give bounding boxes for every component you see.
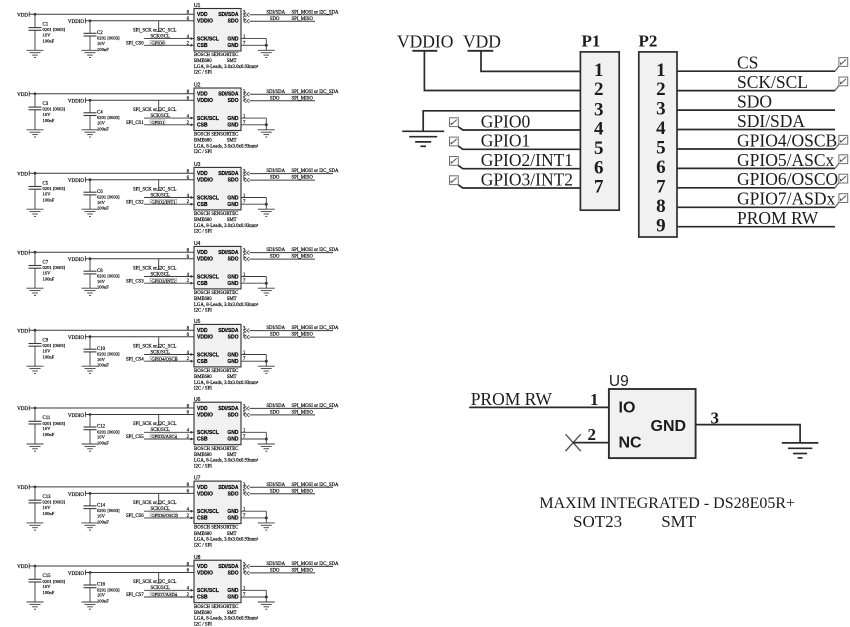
wire SDO net — [250, 258, 316, 260]
capacitor C9 — [29, 330, 42, 366]
svg-text:U6: U6 — [194, 397, 201, 403]
node VDD/C3 junction — [34, 92, 37, 95]
svg-text:LGA, 8-Leads, 3.0x3.0x0.93mm³: LGA, 8-Leads, 3.0x3.0x0.93mm³ — [194, 302, 259, 308]
value label C13 — [43, 495, 66, 516]
wire VDD rail — [29, 251, 194, 253]
capacitor C13 — [29, 487, 42, 523]
net label SDO SPI_MISO — [270, 333, 313, 338]
node GND junction — [265, 203, 268, 206]
wire GND pin 1 — [241, 117, 266, 119]
wire P2 pin 4 net SDI/SDA — [677, 129, 835, 131]
svg-text:16V: 16V — [97, 41, 106, 46]
svg-text:0201 [0603]: 0201 [0603] — [97, 352, 120, 357]
wire SDI/SDA net — [250, 486, 334, 488]
wire VDDIO rail — [85, 99, 194, 101]
ground (C1) — [27, 50, 44, 57]
IC U9 DS28E05R+ — [609, 373, 696, 458]
net label SDO SPI_MISO — [270, 255, 313, 260]
wire P1 pin 3 to ground — [423, 111, 580, 132]
svg-text:I2C / SPI: I2C / SPI — [194, 464, 212, 469]
svg-text:BME680: BME680 — [194, 139, 212, 144]
pin 5 bidirectional arrows — [244, 99, 250, 103]
svg-text:GPIO2/INT1: GPIO2/INT1 — [481, 150, 573, 170]
pin 3 bidirectional arrows — [244, 172, 250, 176]
svg-text:SPI_MISO: SPI_MISO — [292, 333, 314, 338]
ground (U9 pin 3) — [782, 443, 819, 458]
pin 4 marker — [190, 196, 192, 198]
pin 2 marker — [190, 438, 192, 440]
svg-text:SPI_MISO: SPI_MISO — [292, 411, 314, 416]
wire SDI/SDA net — [250, 252, 334, 254]
wire GND down — [265, 590, 267, 602]
svg-text:SDI/SDA: SDI/SDA — [218, 250, 239, 256]
svg-text:SPI_SCK or I2C_SCL: SPI_SCK or I2C_SCL — [133, 266, 177, 271]
svg-text:VDD: VDD — [197, 485, 208, 491]
net stub on VDDIO rail — [157, 100, 161, 111]
svg-text:2: 2 — [656, 79, 666, 100]
svg-text:P1: P1 — [582, 31, 601, 50]
node VDDIO/C10 junction — [89, 335, 92, 338]
svg-text:VDD: VDD — [197, 328, 208, 334]
port flag GPIO4/OSCB — [835, 135, 848, 149]
svg-text:GPIO2/INT1: GPIO2/INT1 — [151, 199, 176, 204]
wire SDO net — [250, 20, 316, 22]
wire SDO net — [250, 336, 316, 338]
net label SDO SPI_MISO — [270, 569, 313, 574]
wire SDI/SDA net — [250, 407, 334, 409]
wire GND pin 7 — [241, 282, 266, 284]
part info U7 — [194, 526, 259, 549]
net label SDO SPI_MISO — [270, 176, 313, 181]
wire SCK/SCL to pin 4 — [144, 38, 194, 40]
svg-text:SCK/SCL: SCK/SCL — [197, 430, 219, 436]
net stub on VDDIO rail — [157, 415, 161, 426]
svg-text:SPI_CS6: SPI_CS6 — [126, 514, 144, 519]
svg-text:SDI/SDA: SDI/SDA — [266, 483, 285, 488]
net label SDI/SDA SPI_MOSI or I2C_SDA — [266, 562, 339, 567]
svg-text:0201 [0603]: 0201 [0603] — [43, 579, 66, 584]
wire CSB to pin 2 — [144, 438, 194, 440]
svg-text:SPI_CS5: SPI_CS5 — [126, 435, 144, 440]
svg-text:16V: 16V — [43, 348, 52, 353]
ground (C8) — [82, 288, 99, 295]
svg-text:LGA, 8-Leads, 3.0x3.0x0.93mm³: LGA, 8-Leads, 3.0x3.0x0.93mm³ — [194, 143, 259, 149]
svg-text:VDD: VDD — [17, 172, 28, 177]
svg-text:SPI_SCK or I2C_SCL: SPI_SCK or I2C_SCL — [133, 344, 177, 349]
svg-text:SDI/SDA: SDI/SDA — [266, 90, 285, 95]
svg-text:SMT: SMT — [661, 512, 697, 531]
value label C9 — [43, 338, 66, 359]
svg-text:SPI_SCK or I2C_SCL: SPI_SCK or I2C_SCL — [133, 108, 177, 113]
svg-text:BME680: BME680 — [194, 453, 212, 458]
svg-text:VDDIO: VDDIO — [197, 98, 213, 104]
svg-text:SPI_MISO: SPI_MISO — [292, 176, 314, 181]
svg-text:VDDIO: VDDIO — [68, 20, 84, 25]
IC U5 BME680 — [194, 319, 241, 367]
wire SDI/SDA net — [250, 565, 334, 567]
svg-text:16V: 16V — [43, 112, 52, 117]
svg-text:16V: 16V — [43, 584, 52, 589]
pin 3 bidirectional arrows — [244, 564, 250, 568]
svg-text:16V: 16V — [97, 514, 106, 519]
pin 2 marker — [190, 44, 192, 46]
svg-text:SOT23: SOT23 — [573, 512, 622, 531]
capacitor C1 — [29, 14, 42, 50]
svg-text:VDDIO: VDDIO — [68, 179, 84, 184]
svg-text:VDDIO: VDDIO — [197, 491, 213, 497]
svg-text:GND: GND — [227, 274, 239, 280]
value label C16 — [97, 583, 120, 604]
wire SCK/SCL to pin 4 — [144, 431, 194, 433]
svg-text:VDDIO: VDDIO — [197, 335, 213, 341]
svg-text:SDO: SDO — [270, 333, 280, 338]
ground (C5) — [27, 209, 44, 216]
wire VDDIO rail — [85, 572, 194, 574]
wire SDI/SDA net — [250, 14, 334, 16]
value label C3 — [43, 102, 66, 123]
svg-text:U9: U9 — [609, 373, 629, 390]
svg-text:0201 [0603]: 0201 [0603] — [97, 36, 120, 41]
svg-text:VDDIO: VDDIO — [68, 493, 84, 498]
ground (C14) — [82, 523, 99, 530]
svg-text:BOSCH SENSORTEC: BOSCH SENSORTEC — [194, 53, 238, 58]
svg-text:SPI_MISO: SPI_MISO — [292, 255, 314, 260]
svg-text:CSB: CSB — [197, 43, 208, 49]
net stub on VDDIO rail — [157, 493, 161, 504]
wire CSB to pin 2 — [144, 360, 194, 362]
capacitor C4 — [84, 100, 97, 130]
svg-text:GPIO7/ASDx: GPIO7/ASDx — [737, 189, 835, 209]
wire SDO net — [250, 100, 316, 102]
ground (C6) — [82, 209, 99, 216]
svg-text:VDDIO: VDDIO — [197, 570, 213, 576]
svg-text:CSB: CSB — [197, 123, 208, 129]
svg-text:BOSCH SENSORTEC: BOSCH SENSORTEC — [194, 291, 238, 296]
svg-text:SDO: SDO — [270, 255, 280, 260]
svg-text:SCK/SCL: SCK/SCL — [197, 195, 219, 201]
node VDD/C1 junction — [34, 13, 37, 16]
node VDDIO/C16 junction — [89, 571, 92, 574]
ground (P1 pin 3) — [402, 131, 444, 146]
pin 5 bidirectional arrows — [244, 19, 250, 23]
power port VDDIO (U8 block) — [68, 570, 86, 577]
svg-text:SDO: SDO — [228, 19, 239, 25]
svg-text:P2: P2 — [639, 31, 658, 50]
wire GND pin 7 — [241, 360, 266, 362]
svg-text:100nF: 100nF — [43, 432, 55, 437]
capacitor C5 — [29, 173, 42, 209]
svg-text:VDDIO: VDDIO — [197, 412, 213, 418]
svg-text:BME680: BME680 — [194, 611, 212, 616]
wire GND down — [265, 355, 267, 367]
IC U6 BME680 — [194, 397, 241, 445]
svg-text:GPIO4/OSCB: GPIO4/OSCB — [737, 130, 837, 150]
pin 3 bidirectional arrows — [244, 13, 250, 17]
svg-text:SPI_MISO: SPI_MISO — [292, 17, 314, 22]
wire GPIO2/INT1 to P1 pin 6 — [458, 166, 580, 169]
svg-text:GND: GND — [227, 195, 239, 201]
svg-text:GND: GND — [227, 588, 239, 594]
svg-text:SDI/SDA: SDI/SDA — [266, 10, 285, 15]
svg-text:VDDIO: VDDIO — [197, 178, 213, 184]
svg-text:0201 [0603]: 0201 [0603] — [43, 107, 66, 112]
svg-text:SDI/SDA: SDI/SDA — [266, 169, 285, 174]
wire P2 pin 1 net CS — [677, 70, 835, 72]
svg-text:GPIO1: GPIO1 — [151, 120, 165, 125]
svg-text:16V: 16V — [43, 191, 52, 196]
net label GPIO3/INT2 — [150, 278, 177, 283]
svg-text:GPIO0: GPIO0 — [151, 40, 165, 45]
wire P2 pin 6 net GPIO5/ASCx — [677, 167, 835, 169]
node VDD/C9 junction — [34, 329, 37, 332]
node VDD/C7 junction — [34, 251, 37, 254]
svg-text:SCK/SCL: SCK/SCL — [197, 116, 219, 122]
wire SDO net — [250, 572, 316, 574]
svg-text:SCK/SCL: SCK/SCL — [197, 509, 219, 515]
capacitor C16 — [84, 573, 97, 603]
wire CSB to pin 2 — [144, 596, 194, 598]
svg-text:VDD: VDD — [17, 251, 28, 256]
svg-text:SCK/SCL: SCK/SCL — [197, 588, 219, 594]
svg-text:GND: GND — [227, 359, 239, 365]
wire GND pin 7 — [241, 124, 266, 126]
part info U2 — [194, 133, 259, 156]
svg-text:MAXIM INTEGRATED - DS28E05R+: MAXIM INTEGRATED - DS28E05R+ — [539, 495, 795, 512]
wire GND pin 1 — [241, 431, 266, 433]
svg-text:100nF: 100nF — [43, 276, 55, 281]
svg-text:100nF: 100nF — [97, 363, 109, 368]
wire P2 pin 8 net GPIO7/ASDx — [677, 206, 835, 208]
power port VDD (U1 block) — [17, 12, 29, 19]
svg-text:SPI_SCK or I2C_SCL: SPI_SCK or I2C_SCL — [133, 580, 177, 585]
power port VDD (U4 block) — [17, 250, 29, 257]
wire GND pin 1 — [241, 38, 266, 40]
net label GPIO2/INT1 — [150, 199, 177, 204]
svg-text:SDO: SDO — [228, 257, 239, 263]
svg-text:0201 [0603]: 0201 [0603] — [43, 500, 66, 505]
pin 5 bidirectional arrows — [244, 492, 250, 496]
wire GND pin 1 — [241, 276, 266, 278]
svg-text:16V: 16V — [97, 357, 106, 362]
wire GND pin 7 — [241, 517, 266, 519]
wire SCK/SCL to pin 4 — [144, 117, 194, 119]
svg-text:4: 4 — [656, 118, 666, 139]
svg-text:SMT: SMT — [227, 453, 237, 458]
part info U9 — [539, 495, 795, 531]
node VDDIO/C8 junction — [89, 257, 92, 260]
wire P2 pin 7 net GPIO6/OSCO — [677, 187, 835, 189]
wire GND pin 7 — [241, 203, 266, 205]
port flag GPIO1 — [450, 137, 459, 146]
svg-text:4: 4 — [594, 119, 604, 140]
wire GPIO3/INT2 to P1 pin 7 — [458, 185, 580, 188]
wire SDO net — [250, 414, 316, 416]
wire U9 pin 3 GND to ground — [696, 425, 801, 443]
node VDD/C15 junction — [34, 565, 37, 568]
svg-text:SDI/SDA: SDI/SDA — [218, 92, 239, 98]
net label SDI/SDA SPI_MOSI or I2C_SDA — [266, 248, 339, 253]
net label SDO SPI_MISO — [270, 96, 313, 101]
svg-text:U7: U7 — [194, 476, 201, 482]
svg-text:SDI/SDA: SDI/SDA — [266, 326, 285, 331]
svg-text:0201 [0603]: 0201 [0603] — [43, 186, 66, 191]
value label C15 — [43, 574, 66, 595]
svg-text:SPI_CS0: SPI_CS0 — [126, 41, 144, 46]
svg-text:0201 [0603]: 0201 [0603] — [97, 274, 120, 279]
svg-text:GND: GND — [651, 418, 687, 435]
port flag CS — [835, 58, 848, 72]
ground (U4) — [258, 288, 275, 295]
wire CSB to pin 2 — [144, 124, 194, 126]
part info U1 — [194, 53, 259, 76]
svg-text:VDDIO: VDDIO — [68, 414, 84, 419]
net label SDI/SDA SPI_MOSI or I2C_SDA — [266, 169, 339, 174]
svg-text:100nF: 100nF — [97, 519, 109, 524]
part info U5 — [194, 369, 259, 392]
pin 2 marker — [190, 360, 192, 362]
value label C8 — [97, 269, 120, 290]
pin 2 marker — [190, 282, 192, 284]
port flag GPIO7/ASDx — [835, 194, 848, 208]
svg-text:I2C / SPI: I2C / SPI — [194, 150, 212, 155]
ground (U5) — [258, 366, 275, 373]
IC U4 BME680 — [194, 241, 241, 289]
node VDDIO/C2 junction — [89, 19, 92, 22]
svg-text:SDI/SDA: SDI/SDA — [737, 111, 805, 131]
port flag GPIO5/ASCx — [835, 155, 848, 169]
svg-text:GND: GND — [227, 509, 239, 515]
wire GND pin 7 — [241, 44, 266, 46]
ground (C4) — [82, 130, 99, 137]
power port VDDIO (U3 block) — [68, 177, 86, 184]
svg-text:0201 [0603]: 0201 [0603] — [43, 343, 66, 348]
svg-text:16V: 16V — [97, 120, 106, 125]
svg-text:BME680: BME680 — [194, 59, 212, 64]
svg-text:VDDIO: VDDIO — [68, 258, 84, 263]
svg-text:16V: 16V — [43, 505, 52, 510]
svg-text:SPI_MOSI or I2C_SDA: SPI_MOSI or I2C_SDA — [292, 326, 339, 331]
net label SDI/SDA SPI_MOSI or I2C_SDA — [266, 483, 339, 488]
svg-text:16V: 16V — [97, 200, 106, 205]
node VDD/C5 junction — [34, 172, 37, 175]
power port VDD (U3 block) — [17, 171, 29, 178]
value label C12 — [97, 425, 120, 446]
svg-text:SMT: SMT — [227, 375, 237, 380]
wire VDD rail — [29, 407, 194, 409]
svg-text:5: 5 — [656, 138, 666, 159]
wire SDO net — [250, 493, 316, 495]
power port VDD (U7 block) — [17, 484, 29, 491]
svg-text:SDO: SDO — [270, 489, 280, 494]
node VDD/C11 junction — [34, 407, 37, 410]
connector P2 — [639, 31, 678, 237]
value label C1 — [43, 22, 66, 43]
part info U4 — [194, 291, 259, 314]
wire GND down — [265, 432, 267, 444]
svg-text:SPI_SCK or I2C_SCL: SPI_SCK or I2C_SCL — [133, 422, 177, 427]
svg-text:SDI/SDA: SDI/SDA — [218, 328, 239, 334]
wire CSB to pin 2 — [144, 517, 194, 519]
svg-text:GND: GND — [227, 43, 239, 49]
wire U9 pin 2 — [573, 442, 609, 444]
svg-text:0201 [0603]: 0201 [0603] — [97, 115, 120, 120]
svg-text:6: 6 — [656, 157, 666, 178]
svg-text:SDI/SDA: SDI/SDA — [218, 406, 239, 412]
svg-text:SDO: SDO — [228, 178, 239, 184]
wire CSB to pin 2 — [144, 44, 194, 46]
wire VDDIO rail — [85, 414, 194, 416]
wire SCK/SCL to pin 4 — [144, 197, 194, 199]
power port VDD (U5 block) — [17, 328, 29, 335]
wire VDDIO rail — [85, 20, 194, 22]
svg-text:100nF: 100nF — [43, 38, 55, 43]
svg-text:NC: NC — [619, 435, 643, 452]
net label GPIO4/OSCB — [150, 356, 178, 361]
svg-text:SCK/SCL: SCK/SCL — [197, 352, 219, 358]
svg-text:SPI_CS1: SPI_CS1 — [126, 121, 144, 126]
svg-text:I2C / SPI: I2C / SPI — [194, 622, 212, 627]
wire VDD rail — [29, 486, 194, 488]
wire CSB to pin 2 — [144, 203, 194, 205]
svg-text:2: 2 — [594, 79, 604, 100]
wire SCK/SCL to pin 4 — [144, 589, 194, 591]
svg-text:SPI_SCK or I2C_SCL: SPI_SCK or I2C_SCL — [133, 29, 177, 34]
ground (U3) — [258, 209, 275, 216]
capacitor C11 — [29, 408, 42, 444]
wire GND pin 1 — [241, 354, 266, 356]
svg-text:100nF: 100nF — [43, 590, 55, 595]
svg-text:BOSCH SENSORTEC: BOSCH SENSORTEC — [194, 526, 238, 531]
svg-text:GND: GND — [227, 595, 239, 601]
wire P2 pin 5 net GPIO4/OSCB — [677, 148, 835, 150]
svg-text:SDO: SDO — [228, 98, 239, 104]
svg-text:100nF: 100nF — [43, 354, 55, 359]
svg-text:0201 [0603]: 0201 [0603] — [97, 429, 120, 434]
svg-text:U2: U2 — [194, 83, 201, 89]
wire SCK/SCL to pin 4 — [144, 276, 194, 278]
svg-text:I2C / SPI: I2C / SPI — [194, 387, 212, 392]
power port VDDIO — [397, 32, 453, 52]
power port VDD (U8 block) — [17, 563, 29, 570]
svg-text:100nF: 100nF — [97, 599, 109, 604]
wire GPIO0 to P1 pin 4 — [458, 127, 580, 130]
ground (U8) — [258, 602, 275, 609]
svg-text:GPIO3/INT2: GPIO3/INT2 — [151, 278, 176, 283]
power port VDDIO (U1 block) — [68, 18, 86, 25]
capacitor C7 — [29, 252, 42, 288]
svg-text:CSB: CSB — [197, 281, 208, 287]
pin 4 marker — [190, 431, 192, 433]
svg-text:GND: GND — [227, 116, 239, 122]
svg-text:SMT: SMT — [227, 139, 237, 144]
svg-text:SPI_MOSI or I2C_SDA: SPI_MOSI or I2C_SDA — [292, 404, 339, 409]
IC U3 BME680 — [194, 162, 241, 210]
wire GND down — [265, 39, 267, 51]
ground (C15) — [27, 602, 44, 609]
svg-text:SPI_SCK or I2C_SCL: SPI_SCK or I2C_SCL — [133, 501, 177, 506]
svg-text:I2C / SPI: I2C / SPI — [194, 230, 212, 235]
ground (C12) — [82, 444, 99, 451]
svg-text:1: 1 — [590, 390, 599, 409]
ground (C2) — [82, 50, 99, 57]
svg-text:CS: CS — [737, 53, 758, 73]
port flag GPIO3/INT2 — [450, 176, 459, 185]
value label C5 — [43, 181, 66, 202]
svg-text:SDI/SDA: SDI/SDA — [266, 404, 285, 409]
svg-text:GPIO6/OSCO: GPIO6/OSCO — [737, 169, 838, 189]
svg-text:3: 3 — [594, 99, 604, 120]
ground (C13) — [27, 523, 44, 530]
